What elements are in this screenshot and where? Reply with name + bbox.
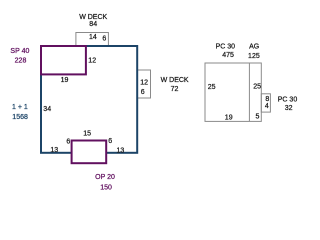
svg-text:15: 15 <box>83 130 91 137</box>
svg-text:12: 12 <box>140 80 148 87</box>
svg-text:6: 6 <box>141 89 145 96</box>
dimension 25 (garage left) <box>208 84 216 91</box>
dimension 6 (OP left) <box>66 139 70 146</box>
svg-text:25: 25 <box>253 84 261 91</box>
label SP 40 228 <box>10 48 29 64</box>
dimension 6 (OP right) <box>108 138 112 145</box>
svg-text:34: 34 <box>43 106 51 113</box>
svg-text:W DECK: W DECK <box>79 14 107 21</box>
dimension 13 (bottom left) <box>50 147 58 154</box>
open porch OP outline <box>72 141 107 164</box>
svg-text:W DECK: W DECK <box>161 77 189 84</box>
label OP 20 150 <box>95 174 115 191</box>
dimension 12 (SP right side) <box>88 57 96 64</box>
wood deck box (right side, 6x12) <box>137 70 150 98</box>
svg-text:150: 150 <box>100 184 112 191</box>
svg-text:8: 8 <box>265 96 269 103</box>
label W DECK 84 (top) <box>79 14 107 28</box>
svg-text:84: 84 <box>89 21 97 28</box>
dimension 25 (AG left) <box>253 84 261 91</box>
svg-text:32: 32 <box>285 105 293 112</box>
svg-text:12: 12 <box>88 57 96 64</box>
svg-text:125: 125 <box>248 53 260 60</box>
dimension 13 (bottom right) <box>117 148 125 155</box>
label PC 30 475 <box>216 43 236 59</box>
svg-text:13: 13 <box>117 148 125 155</box>
svg-text:228: 228 <box>15 57 27 64</box>
garage outline PC/AG <box>205 63 261 121</box>
svg-text:1568: 1568 <box>12 114 28 121</box>
main dwelling outline 1+1 <box>41 46 137 153</box>
svg-text:4: 4 <box>265 103 269 110</box>
svg-text:475: 475 <box>222 52 234 59</box>
svg-text:5: 5 <box>256 114 260 121</box>
dimension 4 (small box width) <box>265 103 269 110</box>
label 1 + 1 1568 <box>12 104 28 121</box>
dimension 19 (garage bottom) <box>225 115 233 122</box>
small PC box (8x4) <box>261 94 270 112</box>
svg-text:19: 19 <box>225 115 233 122</box>
screened porch SP outline <box>41 46 86 74</box>
svg-text:6: 6 <box>102 35 106 42</box>
dimension 34 (left side) <box>43 106 51 113</box>
svg-text:PC 30: PC 30 <box>278 96 298 103</box>
svg-text:14: 14 <box>89 34 97 41</box>
label PC 30 32 <box>278 96 298 112</box>
svg-text:1 + 1: 1 + 1 <box>12 104 28 111</box>
svg-text:OP 20: OP 20 <box>95 174 115 181</box>
svg-text:6: 6 <box>108 138 112 145</box>
svg-text:6: 6 <box>66 139 70 146</box>
svg-text:13: 13 <box>50 147 58 154</box>
svg-text:72: 72 <box>171 86 179 93</box>
garage divider <box>248 63 250 121</box>
label AG 125 <box>248 43 260 60</box>
dimension 6 (right deck width) <box>141 89 145 96</box>
svg-text:SP 40: SP 40 <box>10 48 29 55</box>
dimension 12 (right deck height) <box>140 80 148 87</box>
dimension 6 (top deck height) <box>102 35 106 42</box>
dimension 15 (OP top) <box>83 130 91 137</box>
svg-text:PC 30: PC 30 <box>216 43 236 50</box>
dimension 8 (small box height) <box>265 96 269 103</box>
svg-text:AG: AG <box>249 43 259 50</box>
wood deck box (top, 14x6) <box>76 33 109 47</box>
dimension 14 (top deck width) <box>89 34 97 41</box>
label W DECK 72 (right) <box>161 77 189 93</box>
svg-text:19: 19 <box>61 77 69 84</box>
svg-text:25: 25 <box>208 84 216 91</box>
dimension 5 (AG bottom) <box>256 114 260 121</box>
dimension 19 (SP bottom) <box>61 77 69 84</box>
